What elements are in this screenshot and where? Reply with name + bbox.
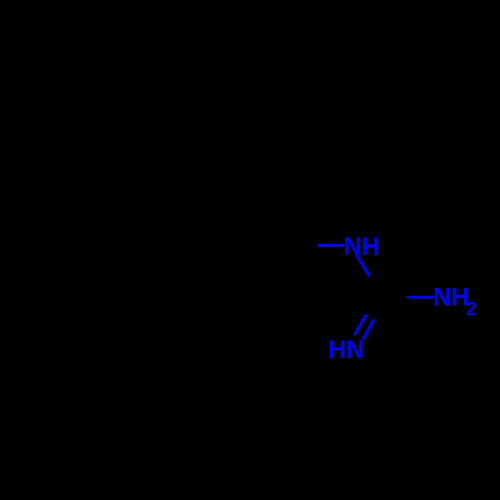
wire: double bond C=NH line 1, blue half: [354, 314, 366, 335]
svg-text:2: 2: [466, 299, 476, 319]
wire: double bond C=NH line 2, blue half: [362, 320, 373, 341]
svg-text:NH: NH: [433, 284, 469, 312]
svg-text:HN: HN: [328, 336, 364, 364]
wire: bond C-NH2, blue half to NH2: [407, 296, 433, 299]
wire: bond C(ring side)-N, blue half to NH: [318, 244, 344, 247]
svg-text:NH: NH: [344, 233, 380, 261]
wire: bond NH-C(guanidine), blue half from NH: [356, 254, 370, 276]
